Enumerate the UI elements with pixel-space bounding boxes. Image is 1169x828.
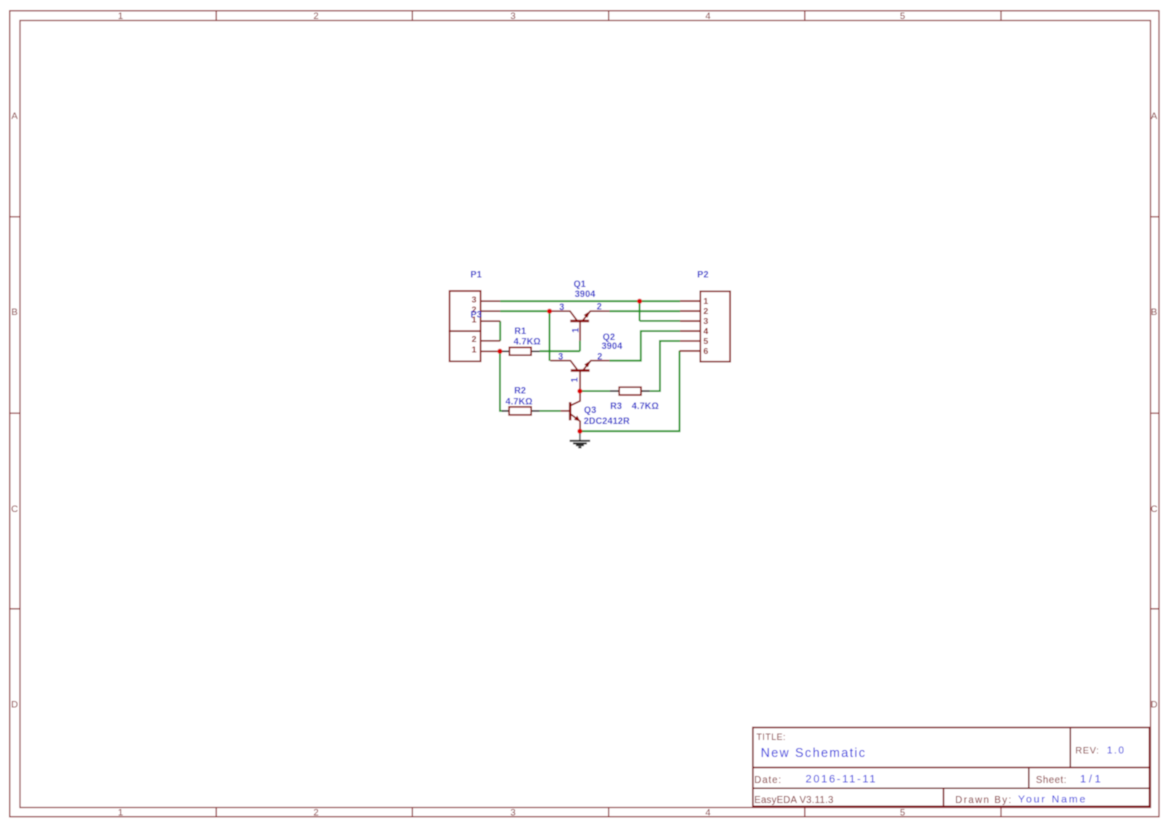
P3 pins 2,1 xyxy=(481,341,501,352)
R3 body xyxy=(619,387,641,395)
svg-text:3: 3 xyxy=(510,808,515,819)
svg-text:New Schematic: New Schematic xyxy=(761,746,867,760)
svg-text:D: D xyxy=(11,700,18,711)
svg-text:1.0: 1.0 xyxy=(1107,745,1126,756)
svg-text:2: 2 xyxy=(313,11,318,22)
svg-text:EasyEDA V3.11.3: EasyEDA V3.11.3 xyxy=(754,795,833,806)
svg-text:R3: R3 xyxy=(610,401,622,411)
Q3 base bar xyxy=(569,402,571,420)
svg-text:3: 3 xyxy=(559,302,564,312)
ground bars xyxy=(570,440,590,442)
wire Q2 pin1 node to R3 left xyxy=(581,390,610,392)
wire node to R2 left xyxy=(500,351,503,411)
svg-text:Your Name: Your Name xyxy=(1018,794,1087,806)
wire Q3 emitter node to P2 pin6 xyxy=(581,351,680,431)
svg-text:3904: 3904 xyxy=(575,289,596,299)
P2 pins 1-6 xyxy=(680,301,701,351)
svg-text:B: B xyxy=(1151,307,1157,318)
svg-text:Sheet:: Sheet: xyxy=(1036,775,1067,786)
node junction Q3 emitter / GND / P2.6 xyxy=(577,429,582,434)
svg-text:C: C xyxy=(11,504,18,515)
wire Q1 pin1 tail xyxy=(579,341,581,352)
svg-text:Q3: Q3 xyxy=(584,405,596,415)
svg-text:2: 2 xyxy=(597,302,602,312)
resistor R2 xyxy=(502,385,539,415)
svg-text:2016-11-11: 2016-11-11 xyxy=(806,773,878,785)
Q1 base lead pin 3 xyxy=(550,311,578,321)
Q1 base bar xyxy=(570,320,589,322)
svg-text:4.7KΩ: 4.7KΩ xyxy=(506,396,533,406)
wire Q1 base node down to Q2 base xyxy=(549,311,551,361)
P1 pins 3,2,1 xyxy=(481,301,501,321)
svg-text:B: B xyxy=(11,307,17,318)
ground xyxy=(570,431,590,447)
wire to P2 pin3 xyxy=(640,320,681,322)
svg-text:R1: R1 xyxy=(514,326,526,336)
svg-text:REV:: REV: xyxy=(1075,745,1099,755)
wire R1 right to Q1 pin1 xyxy=(540,350,580,352)
svg-text:4: 4 xyxy=(703,326,708,336)
svg-text:5: 5 xyxy=(900,11,905,22)
Q2 base lead pin 3 xyxy=(550,361,578,371)
svg-text:5: 5 xyxy=(703,336,708,346)
node junction Q2.1 / R3 / Q3 collector xyxy=(577,389,582,394)
wire Q1 pin2 to P2 pin2 xyxy=(610,310,681,312)
Q3 emitter arrowhead xyxy=(574,416,580,422)
svg-text:2: 2 xyxy=(472,334,477,344)
resistor R1 xyxy=(500,326,541,355)
wire P1 pin1 to P3 pin2 xyxy=(499,321,501,341)
svg-text:Q1: Q1 xyxy=(574,279,586,289)
svg-text:1: 1 xyxy=(118,11,123,22)
svg-text:3: 3 xyxy=(703,316,708,326)
P2 box xyxy=(700,291,730,361)
title block xyxy=(753,728,1150,807)
svg-text:4: 4 xyxy=(705,11,710,22)
Q2 pin 1 lead xyxy=(579,372,581,392)
R1 leads xyxy=(500,350,540,352)
resistor R3 xyxy=(610,387,659,411)
connector P3 xyxy=(450,310,501,362)
P1 box xyxy=(450,291,481,331)
node junction P1.2 / Q1 base / Q2 base xyxy=(547,309,552,314)
R2 leads xyxy=(502,410,539,412)
svg-text:1: 1 xyxy=(703,296,708,306)
svg-text:P3: P3 xyxy=(471,310,482,320)
svg-text:3904: 3904 xyxy=(602,341,623,351)
Q1 pin 1 lead xyxy=(579,322,581,341)
ground stem xyxy=(579,431,581,440)
Q1 emitter lead to pin 2 xyxy=(583,311,610,321)
svg-text:2DC2412R: 2DC2412R xyxy=(584,416,630,426)
wire junction drop from node to P2 pin3 row xyxy=(639,301,641,321)
svg-text:2: 2 xyxy=(597,351,602,361)
svg-text:A: A xyxy=(11,111,18,122)
R3 leads xyxy=(610,390,650,392)
node junction P2.1 / P2.3 branch xyxy=(637,299,642,304)
svg-text:P2: P2 xyxy=(697,270,708,280)
wire P1 pin2 to Q1 base node xyxy=(500,310,549,312)
svg-text:Drawn By:: Drawn By: xyxy=(955,795,1012,806)
svg-text:R2: R2 xyxy=(514,385,526,395)
svg-text:6: 6 xyxy=(703,346,708,356)
svg-text:1/1: 1/1 xyxy=(1080,774,1103,786)
Q2 emitter arrowhead xyxy=(584,360,591,367)
svg-text:1: 1 xyxy=(570,377,580,382)
transistor Q2 xyxy=(550,332,622,391)
svg-text:Date:: Date: xyxy=(754,775,782,786)
svg-text:1: 1 xyxy=(570,328,580,333)
svg-text:D: D xyxy=(1151,700,1158,711)
Q2 emitter lead to pin 2 xyxy=(583,361,609,371)
wire R3 right riser to P2 pin5 xyxy=(650,341,680,391)
transistor Q1 xyxy=(550,279,610,341)
R2 body xyxy=(509,407,531,415)
svg-text:2: 2 xyxy=(703,306,708,316)
Q3 emitter lead xyxy=(571,414,580,431)
Q1 emitter arrowhead xyxy=(584,311,591,318)
wire Q2 pin2 to P2 pin4 xyxy=(609,331,680,361)
svg-text:C: C xyxy=(1151,504,1158,515)
P3 box xyxy=(450,331,481,361)
connector P1 xyxy=(450,270,501,332)
svg-text:P1: P1 xyxy=(471,270,482,280)
connector P2 xyxy=(680,270,731,362)
svg-text:4: 4 xyxy=(705,808,710,819)
Q3 collector lead xyxy=(571,391,580,405)
transistor Q3 xyxy=(561,391,630,431)
svg-text:3: 3 xyxy=(510,11,515,22)
svg-text:3: 3 xyxy=(472,294,477,304)
wire P1 pin3 to P2 pin1 xyxy=(500,300,680,302)
Q3 base lead xyxy=(561,410,570,412)
node junction P3.1 / R1 / R2 xyxy=(497,349,502,354)
svg-text:TITLE:: TITLE: xyxy=(757,732,786,742)
svg-text:3: 3 xyxy=(558,351,563,361)
svg-text:2: 2 xyxy=(313,808,318,819)
svg-text:4.7KΩ: 4.7KΩ xyxy=(632,401,659,411)
R1 body xyxy=(509,347,531,355)
svg-text:1: 1 xyxy=(118,808,123,819)
svg-text:5: 5 xyxy=(900,808,905,819)
wire R2 right to Q3 base xyxy=(539,410,560,412)
Q2 base bar xyxy=(571,369,590,371)
svg-text:1: 1 xyxy=(472,344,477,354)
svg-text:4.7KΩ: 4.7KΩ xyxy=(514,336,541,346)
svg-text:A: A xyxy=(1151,111,1158,122)
